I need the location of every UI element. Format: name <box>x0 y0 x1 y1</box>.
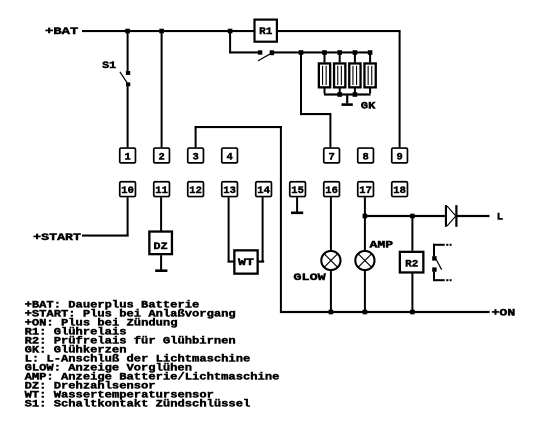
switch S1 <box>120 71 130 86</box>
wire box3 riser <box>195 126 197 147</box>
node junction glow branch <box>299 50 304 55</box>
wire glow bus to box7 <box>300 54 302 116</box>
svg-text:2: 2 <box>158 151 164 163</box>
wire to diode <box>365 215 445 217</box>
glow plugs GK elements <box>319 63 330 87</box>
wire GLOW to +ON bus <box>330 271 332 311</box>
wire box10 to +START <box>127 197 129 235</box>
svg-text:AMP: AMP <box>370 241 394 252</box>
svg-text:15: 15 <box>291 185 304 197</box>
svg-text:S1: S1 <box>102 61 116 72</box>
svg-text:7: 7 <box>328 151 334 163</box>
svg-text:DZ: DZ <box>154 241 168 253</box>
svg-text:11: 11 <box>155 185 168 197</box>
svg-text:S1: Schaltkontakt Zündschlüsse: S1: Schaltkontakt Zündschlüssel <box>25 399 251 411</box>
wire bus down to box9 <box>399 31 401 147</box>
ground DZ stem <box>160 255 162 269</box>
wire bus to box2 <box>161 32 163 147</box>
svg-text:WT: WT <box>238 257 254 269</box>
node +ON junction AMP <box>363 310 368 315</box>
wire S1 to box1 <box>127 86 129 147</box>
svg-text:R1: R1 <box>259 26 272 38</box>
sensor DZ box <box>149 232 172 255</box>
node junction S1 tap <box>125 29 130 34</box>
svg-text:L: L <box>497 213 504 224</box>
svg-text:17: 17 <box>359 185 372 197</box>
ground box15 bar <box>291 212 303 215</box>
node junction R2 tap <box>410 214 415 219</box>
wire box16 to GLOW lamp <box>330 197 332 250</box>
wire R1 coil branch <box>229 31 231 54</box>
svg-text:+START: +START <box>33 233 81 244</box>
svg-text:9: 9 <box>396 151 402 163</box>
node +ON junction GLOW <box>329 310 334 315</box>
glow bus taps <box>324 54 326 63</box>
sensor WT box <box>234 250 257 273</box>
ground DZ bar <box>155 269 167 272</box>
svg-text:14: 14 <box>257 185 270 197</box>
svg-text:1: 1 <box>124 151 130 163</box>
svg-text:3: 3 <box>192 151 198 163</box>
lamp AMP <box>355 251 374 270</box>
terminal boxes row1 <box>120 148 136 163</box>
relay R2 box <box>400 252 424 273</box>
wire box15 ground stem <box>296 197 298 211</box>
svg-text:13: 13 <box>223 185 236 197</box>
ground GK bar <box>342 103 353 106</box>
svg-text:10: 10 <box>121 185 134 197</box>
node glow bus tap dots <box>322 50 327 55</box>
wire S1 upper <box>127 32 129 71</box>
lamp GLOW <box>321 251 340 270</box>
wire R2 to +ON bus <box>411 274 413 311</box>
svg-text:18: 18 <box>393 185 406 197</box>
node junction L line <box>363 214 368 219</box>
wire junction to R2 <box>411 217 413 251</box>
wire glow bottom bus <box>324 93 371 95</box>
svg-text:+ON: +ON <box>492 308 516 319</box>
relay contact R1 <box>258 50 274 61</box>
svg-text:+BAT: +BAT <box>45 27 78 38</box>
svg-text:16: 16 <box>325 185 338 197</box>
wire box14 to WT <box>262 197 264 262</box>
wire box13 to WT <box>228 197 230 262</box>
relay R1 <box>255 20 277 42</box>
terminal boxes row2 <box>120 182 136 197</box>
svg-text:12: 12 <box>189 185 202 197</box>
wire +ON bus <box>280 311 490 313</box>
wire +BAT bus <box>82 30 401 32</box>
relay contact R2 aux switch <box>432 244 451 281</box>
node +ON junction R2 <box>410 310 415 315</box>
node bottom bus dot B <box>353 92 358 97</box>
node junction R1 coil tap <box>228 29 233 34</box>
glow plug bottom taps <box>324 89 326 94</box>
node junction box2 tap <box>159 29 164 34</box>
wire contact to glow bus <box>274 51 371 53</box>
svg-text:GLOW: GLOW <box>293 273 327 284</box>
ground GK stem <box>346 96 348 104</box>
wire AMP to +ON bus <box>364 271 366 311</box>
wire box17 down <box>364 197 366 250</box>
svg-text:GK: GK <box>361 101 377 112</box>
svg-text:8: 8 <box>362 151 368 163</box>
svg-text:R2: R2 <box>405 259 418 271</box>
svg-text:4: 4 <box>226 151 232 163</box>
wire box11 to DZ <box>160 197 162 230</box>
node bottom bus dot A <box>337 92 342 97</box>
wire diode to L <box>458 215 490 217</box>
diode D1 <box>445 205 458 227</box>
